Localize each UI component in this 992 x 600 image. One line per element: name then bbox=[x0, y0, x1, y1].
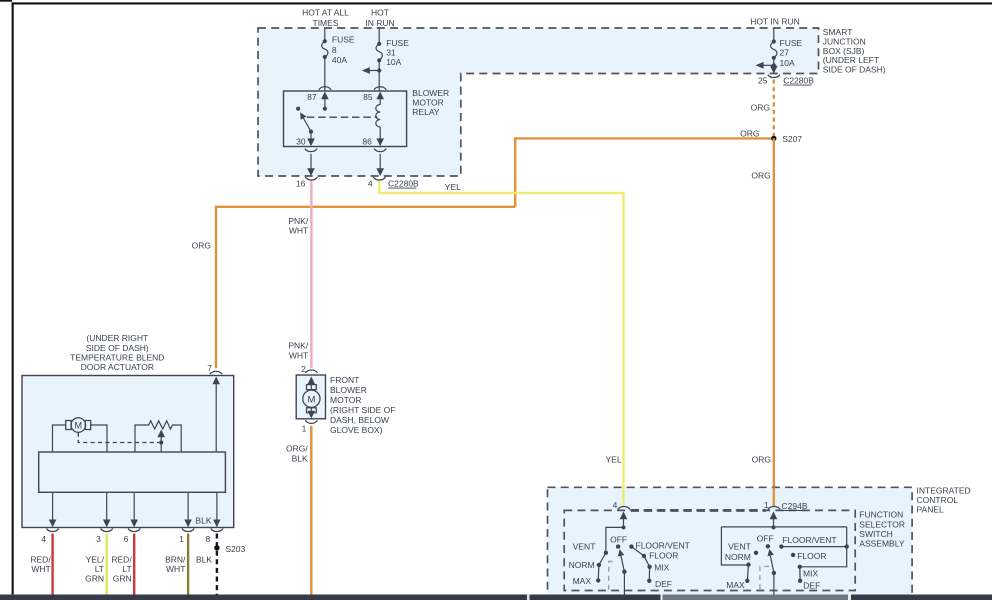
svg-text:4: 4 bbox=[368, 178, 373, 188]
actuator bottom connectors bbox=[41, 529, 223, 545]
svg-text:10A: 10A bbox=[780, 58, 795, 68]
temperature blend door actuator label bbox=[70, 333, 164, 372]
label HOT AT ALL TIMES bbox=[302, 8, 349, 28]
left switch FLOOR chain contacts bbox=[629, 540, 690, 589]
svg-text:BLK: BLK bbox=[196, 555, 212, 565]
splice S207 bbox=[771, 134, 802, 144]
relay coil pin 85/86 bbox=[362, 92, 384, 147]
wire YEL/LT GRN pin 3 bbox=[85, 534, 107, 595]
relay pin 30 bbox=[296, 130, 315, 147]
svg-text:FLOOR: FLOOR bbox=[649, 551, 678, 561]
svg-text:BLK: BLK bbox=[195, 515, 211, 525]
svg-text:(UNDER RIGHT: (UNDER RIGHT bbox=[86, 333, 148, 343]
pin 25 arrow at SJB boundary bbox=[770, 66, 778, 74]
svg-text:HOT AT ALL: HOT AT ALL bbox=[302, 8, 349, 18]
svg-text:1: 1 bbox=[179, 534, 184, 544]
svg-text:FRONT: FRONT bbox=[330, 375, 359, 385]
frame left border bbox=[12, 2, 14, 594]
wire arrow to other circuits (fuse 31) bbox=[362, 67, 379, 74]
svg-text:LT: LT bbox=[122, 564, 131, 574]
svg-text:27: 27 bbox=[780, 47, 790, 57]
front blower motor box bbox=[296, 375, 325, 419]
right selector switch common bbox=[721, 511, 846, 566]
connector C2280B pin 16 bbox=[296, 177, 318, 188]
svg-text:ORG: ORG bbox=[751, 102, 770, 112]
actuator inner module bbox=[39, 452, 226, 492]
svg-text:8: 8 bbox=[205, 534, 210, 544]
svg-text:4: 4 bbox=[613, 500, 618, 510]
right switch FLOOR chain contacts bbox=[779, 535, 849, 591]
svg-text:WHT: WHT bbox=[166, 564, 185, 574]
svg-text:S207: S207 bbox=[782, 134, 802, 144]
actuator motor leads bbox=[53, 425, 108, 452]
bottom scrollbar separator 3 bbox=[848, 595, 851, 600]
svg-text:GLOVE BOX): GLOVE BOX) bbox=[330, 425, 383, 435]
svg-text:86: 86 bbox=[362, 137, 372, 147]
left switch OFF contact and wiper bbox=[610, 534, 627, 594]
svg-text:ASSEMBLY: ASSEMBLY bbox=[859, 539, 905, 549]
fuse 31 10A bbox=[376, 28, 409, 91]
blower motor relay box bbox=[284, 88, 450, 147]
wire YEL entering ICP bbox=[622, 487, 624, 506]
relay pin 30 wire to connector 16 bbox=[305, 149, 317, 176]
right switch VENT-NORM-MAX contacts bbox=[725, 541, 758, 590]
svg-text:1: 1 bbox=[302, 423, 307, 433]
svg-text:ORG: ORG bbox=[192, 241, 211, 251]
svg-text:FLOOR/VENT: FLOOR/VENT bbox=[636, 540, 690, 550]
svg-text:GRN: GRN bbox=[85, 574, 104, 584]
svg-text:FUSE: FUSE bbox=[780, 38, 803, 48]
svg-text:PNK/: PNK/ bbox=[288, 341, 308, 351]
svg-text:C2280B: C2280B bbox=[388, 178, 419, 188]
svg-text:6: 6 bbox=[124, 534, 129, 544]
svg-text:GRN: GRN bbox=[113, 574, 132, 584]
connector C2280B pin 4 bbox=[368, 177, 419, 188]
svg-text:16: 16 bbox=[296, 178, 306, 188]
wire ORG dashed from C2280B bbox=[751, 80, 774, 137]
svg-text:NORM: NORM bbox=[725, 552, 751, 562]
svg-text:ORG: ORG bbox=[740, 128, 759, 138]
svg-text:BLK: BLK bbox=[292, 453, 308, 463]
svg-text:S203: S203 bbox=[225, 544, 245, 554]
svg-text:DASH, BELOW: DASH, BELOW bbox=[330, 415, 389, 425]
frame top border bbox=[12, 2, 992, 4]
function selector switch assembly box bbox=[564, 510, 855, 590]
smart junction box SJB outline bbox=[258, 28, 819, 176]
svg-text:BLOWER: BLOWER bbox=[330, 385, 367, 395]
svg-text:BRN/: BRN/ bbox=[165, 555, 186, 565]
svg-text:3: 3 bbox=[96, 534, 101, 544]
svg-text:M: M bbox=[307, 394, 315, 405]
svg-text:YEL/: YEL/ bbox=[86, 555, 105, 565]
actuator resistor bbox=[135, 421, 181, 452]
svg-text:YEL: YEL bbox=[445, 182, 461, 192]
relay connector arc pin 85 bbox=[374, 87, 386, 90]
bottom scrollbar separator 2 bbox=[661, 595, 663, 600]
relay switch contact bbox=[296, 107, 311, 132]
wire ORG horizontal into S207 bbox=[515, 128, 774, 207]
svg-text:WHT: WHT bbox=[289, 226, 308, 236]
front blower motor connector pin 1 bbox=[302, 420, 318, 433]
wire ORG/BLK from blower motor bbox=[286, 426, 311, 595]
front blower motor label bbox=[330, 375, 396, 435]
svg-text:MOTOR: MOTOR bbox=[412, 98, 443, 108]
svg-text:DOOR ACTUATOR: DOOR ACTUATOR bbox=[81, 362, 154, 372]
svg-text:OFF: OFF bbox=[610, 534, 627, 544]
bottom scrollbar separator 1 bbox=[527, 595, 530, 600]
relay pin 86 wire to connector 4 bbox=[374, 149, 386, 176]
svg-text:TIMES: TIMES bbox=[313, 18, 339, 28]
svg-text:2: 2 bbox=[301, 364, 306, 374]
svg-text:RED/: RED/ bbox=[111, 555, 132, 565]
svg-text:HOT: HOT bbox=[371, 8, 389, 18]
integrated control panel box bbox=[548, 487, 913, 596]
front blower motor connector pin 2 bbox=[301, 364, 317, 374]
actuator connector pin 7 bbox=[207, 363, 222, 375]
svg-text:FUNCTION: FUNCTION bbox=[859, 510, 903, 520]
wire RED/LT GRN pin 6 bbox=[111, 534, 134, 595]
svg-text:SWITCH: SWITCH bbox=[859, 529, 893, 539]
bottom scrollbar dark left bbox=[0, 595, 527, 600]
svg-text:C294B: C294B bbox=[782, 501, 808, 511]
svg-text:IN RUN: IN RUN bbox=[365, 18, 394, 28]
svg-text:LT: LT bbox=[95, 564, 104, 574]
svg-text:25: 25 bbox=[758, 75, 768, 85]
label INTEGRATED CONTROL PANEL bbox=[917, 486, 971, 515]
svg-text:40A: 40A bbox=[332, 55, 347, 65]
svg-text:C2280B: C2280B bbox=[783, 75, 814, 85]
svg-text:HOT IN RUN: HOT IN RUN bbox=[750, 17, 799, 27]
svg-text:WHT: WHT bbox=[31, 564, 50, 574]
svg-text:1: 1 bbox=[764, 500, 769, 510]
svg-text:4: 4 bbox=[41, 534, 46, 544]
actuator linkage dashed bbox=[78, 433, 159, 443]
actuator wiper bbox=[157, 430, 165, 453]
wire ORG vertical S207 to ICP bbox=[751, 138, 773, 506]
svg-text:ORG: ORG bbox=[752, 455, 771, 465]
svg-text:(RIGHT SIDE OF: (RIGHT SIDE OF bbox=[330, 405, 396, 415]
label HOT IN RUN (fuse 31) bbox=[365, 8, 394, 28]
wire PNK/WHT from C2280B pin 16 to blower motor bbox=[288, 181, 311, 369]
label FUNCTION SELECTOR SWITCH ASSEMBLY bbox=[859, 510, 905, 549]
svg-text:SIDE OF DASH): SIDE OF DASH) bbox=[86, 343, 149, 353]
wire ORG entering ICP bbox=[773, 487, 775, 506]
left selector switch common bbox=[606, 511, 627, 552]
wire arrow to other circuits (fuse 27) bbox=[756, 62, 774, 69]
svg-text:INTEGRATED: INTEGRATED bbox=[917, 486, 971, 496]
svg-text:PANEL: PANEL bbox=[917, 505, 945, 515]
svg-text:RED/: RED/ bbox=[30, 555, 51, 565]
right switch linkage dashed bbox=[760, 566, 769, 590]
svg-text:8: 8 bbox=[332, 45, 337, 55]
actuator output wires bbox=[49, 492, 221, 527]
left switch linkage dashed bbox=[609, 562, 613, 591]
svg-text:DEF: DEF bbox=[655, 579, 672, 589]
svg-text:M: M bbox=[74, 420, 82, 430]
splice S203 bbox=[214, 544, 245, 554]
svg-text:85: 85 bbox=[363, 92, 373, 102]
svg-text:MIX: MIX bbox=[803, 568, 818, 578]
label HOT IN RUN (fuse 27) bbox=[750, 17, 799, 27]
svg-text:SIDE OF DASH): SIDE OF DASH) bbox=[823, 64, 886, 74]
svg-text:87: 87 bbox=[307, 92, 317, 102]
svg-text:WHT: WHT bbox=[289, 350, 308, 360]
svg-text:MAX: MAX bbox=[726, 580, 745, 590]
wire YEL from C2280B pin 4 to ICP bbox=[379, 181, 623, 507]
svg-text:10A: 10A bbox=[386, 57, 401, 67]
right switch OFF contact and wiper bbox=[757, 534, 776, 595]
wire BLK pin 8 bbox=[196, 534, 217, 595]
svg-text:OFF: OFF bbox=[757, 534, 774, 544]
svg-text:DEF: DEF bbox=[803, 581, 820, 591]
svg-text:FLOOR: FLOOR bbox=[797, 551, 826, 561]
left switch VENT-NORM-MAX contacts bbox=[569, 542, 608, 587]
bottom scrollbar dark mid bbox=[530, 595, 661, 600]
frame corner stub bbox=[0, 0, 12, 2]
svg-text:ORG: ORG bbox=[751, 171, 770, 181]
svg-text:MAX: MAX bbox=[573, 576, 592, 586]
svg-text:SELECTOR: SELECTOR bbox=[859, 519, 905, 529]
actuator motor M bbox=[66, 418, 91, 433]
temperature blend door actuator box bbox=[22, 376, 234, 528]
relay pin 87 bbox=[307, 92, 329, 111]
svg-text:30: 30 bbox=[296, 137, 306, 147]
wire BRN/WHT pin 1 bbox=[165, 534, 188, 595]
svg-text:PNK/: PNK/ bbox=[288, 216, 308, 226]
svg-text:VENT: VENT bbox=[573, 542, 596, 552]
svg-text:TEMPERATURE BLEND: TEMPERATURE BLEND bbox=[70, 352, 164, 362]
svg-text:BLOWER: BLOWER bbox=[412, 88, 449, 98]
wire RED/WHT pin 4 bbox=[30, 534, 52, 595]
bottom scrollbar gray thumb bbox=[663, 595, 849, 600]
svg-text:7: 7 bbox=[207, 363, 212, 373]
fuse 27 10A bbox=[771, 28, 803, 74]
connector C294B pin 1 at ICP bbox=[764, 500, 808, 511]
svg-text:MOTOR: MOTOR bbox=[330, 395, 361, 405]
actuator pin 7 wire bbox=[212, 377, 220, 453]
svg-text:YEL: YEL bbox=[606, 455, 622, 465]
svg-text:NORM: NORM bbox=[569, 560, 595, 570]
label SMART JUNCTION BOX bbox=[823, 27, 886, 74]
svg-text:RELAY: RELAY bbox=[412, 107, 440, 117]
svg-text:ORG/: ORG/ bbox=[286, 444, 308, 454]
svg-text:CONTROL: CONTROL bbox=[917, 495, 959, 505]
wire ORG to blend door actuator bbox=[192, 207, 516, 368]
relay connector arc pin 87 bbox=[319, 87, 331, 90]
svg-text:FLOOR/VENT: FLOOR/VENT bbox=[782, 535, 836, 545]
relay coil link dashed bbox=[307, 116, 378, 118]
connector C2280B pin 25 bbox=[758, 75, 814, 86]
bottom scrollbar dark right bbox=[851, 595, 992, 600]
front blower motor symbol bbox=[303, 377, 320, 419]
connector pin 4 at ICP bbox=[613, 500, 631, 510]
fuse 8 40A bbox=[322, 28, 355, 91]
svg-text:MIX: MIX bbox=[654, 563, 669, 573]
svg-text:FUSE: FUSE bbox=[332, 35, 355, 45]
svg-text:VENT: VENT bbox=[728, 541, 751, 551]
